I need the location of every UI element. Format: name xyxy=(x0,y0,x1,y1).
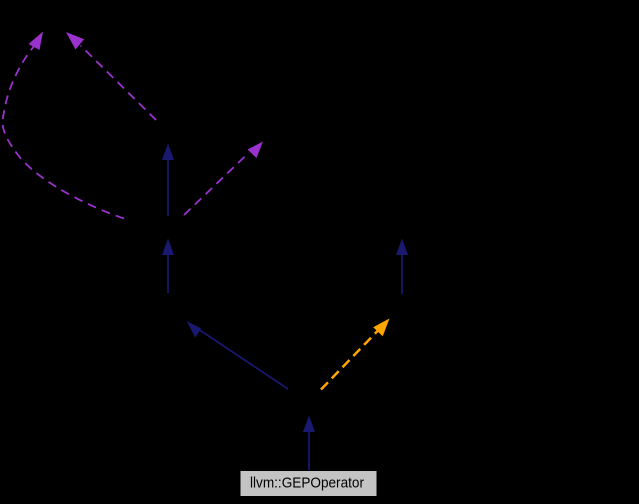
wire inheritance arrow Operator to User (solid blue vertical left) xyxy=(162,239,174,294)
svg-text:llvm::GEPOperator: llvm::GEPOperator xyxy=(250,475,364,492)
wire inheritance arrow ConcreteOperator to Operator (solid blue diagonal) xyxy=(187,321,288,389)
wire template relation arrow ConcreteOperator to template (orange dashed diagonal) xyxy=(321,319,390,390)
wire usage arc User to Use (purple dashed big left curve) xyxy=(3,32,124,219)
wire inheritance arrow template chain (solid blue vertical right) xyxy=(396,239,408,295)
wire inheritance arrow User to Value (solid blue vertical left upper) xyxy=(162,144,174,217)
wire usage arrow User to upper-right node (purple dashed diagonal) xyxy=(184,142,263,216)
wire usage arrow Value to Use (purple dashed diagonal up-left) xyxy=(66,32,156,120)
node llvm::GEPOperator (current node box) xyxy=(240,471,377,497)
wire inheritance arrow GEPOperator to ConcreteOperator (solid blue vertical) xyxy=(303,416,315,471)
